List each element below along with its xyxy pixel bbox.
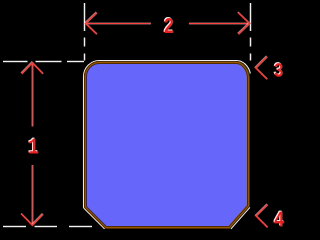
svg-text:3: 3	[274, 60, 284, 83]
svg-text:4: 4	[274, 207, 285, 233]
svg-text:2: 2	[164, 14, 175, 40]
svg-text:1: 1	[28, 134, 39, 160]
